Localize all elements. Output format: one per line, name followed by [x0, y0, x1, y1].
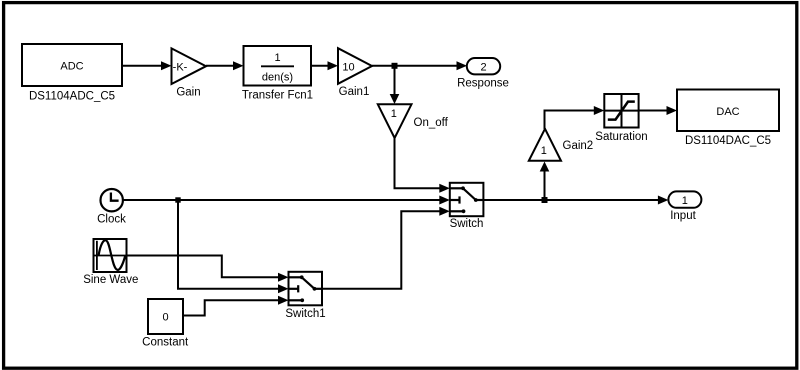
svg-text:den(s): den(s) — [262, 72, 293, 84]
svg-text:DS1104DAC_C5: DS1104DAC_C5 — [685, 135, 771, 147]
svg-text:1: 1 — [682, 195, 688, 207]
svg-text:DAC: DAC — [716, 106, 739, 118]
svg-text:10: 10 — [342, 61, 354, 73]
svg-text:ADC: ADC — [60, 61, 83, 73]
svg-text:Switch1: Switch1 — [285, 308, 325, 320]
svg-text:2: 2 — [480, 62, 486, 74]
svg-text:Clock: Clock — [97, 213, 126, 225]
svg-text:1: 1 — [391, 108, 397, 120]
svg-text:Gain2: Gain2 — [563, 140, 594, 152]
svg-text:1: 1 — [541, 145, 547, 157]
svg-text:Switch: Switch — [450, 218, 484, 230]
svg-text:Constant: Constant — [142, 337, 189, 349]
svg-text:-K-: -K- — [173, 61, 188, 73]
svg-text:Gain1: Gain1 — [339, 86, 370, 98]
svg-text:Saturation: Saturation — [595, 131, 647, 143]
svg-text:Transfer Fcn1: Transfer Fcn1 — [242, 90, 313, 102]
svg-text:Input: Input — [670, 210, 696, 222]
svg-text:Response: Response — [457, 77, 509, 89]
svg-text:0: 0 — [162, 311, 168, 323]
svg-text:Gain: Gain — [176, 87, 200, 99]
svg-text:DS1104ADC_C5: DS1104ADC_C5 — [29, 91, 115, 103]
svg-text:Sine Wave: Sine Wave — [83, 274, 138, 286]
svg-text:1: 1 — [274, 52, 280, 64]
svg-text:On_off: On_off — [414, 117, 449, 129]
